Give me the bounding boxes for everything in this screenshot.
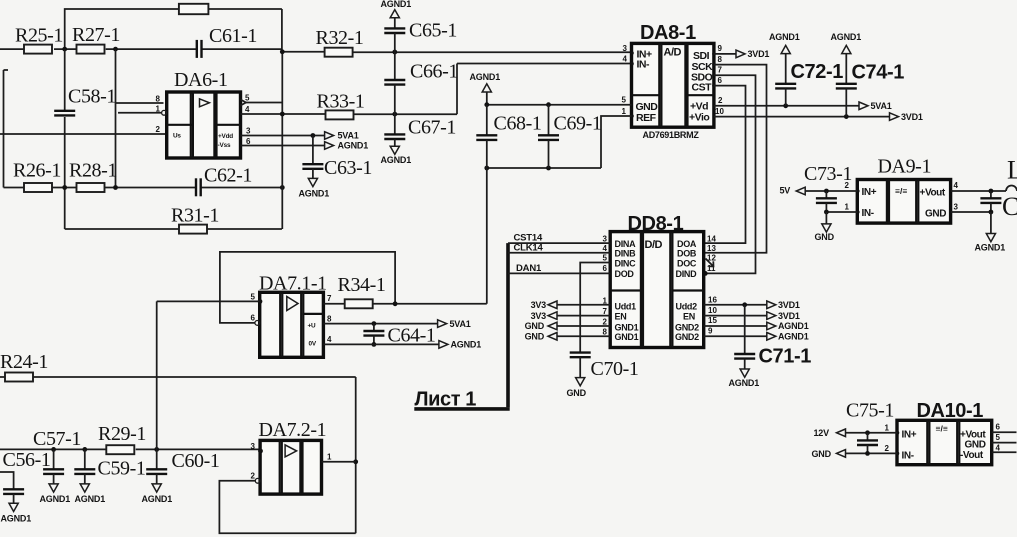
svg-text:6: 6: [996, 423, 1001, 432]
wire +Vout row: [992, 431, 1017, 433]
wire DA6 pin4 to R33: [241, 113, 326, 115]
wire input row R25/R27: [0, 48, 26, 50]
wire EN2 row to 3VD1: [704, 315, 767, 317]
wire DA6 pin6 to AGND1: [241, 145, 325, 147]
svg-text:C61-1: C61-1: [209, 25, 257, 47]
svg-text:0V: 0V: [309, 341, 317, 348]
wire C73 to GND: [825, 212, 827, 224]
svg-text:15: 15: [708, 316, 717, 325]
power AGND1 flag at pin4: [439, 341, 448, 349]
svg-text:DINB: DINB: [615, 249, 637, 259]
svg-text:R24-1: R24-1: [0, 351, 48, 373]
svg-text:AGND1: AGND1: [778, 321, 809, 331]
svg-text:5VA1: 5VA1: [338, 131, 359, 141]
ground AGND1 below C56: [9, 503, 18, 511]
svg-text:R32-1: R32-1: [316, 27, 364, 49]
ground AGND1 below C60: [152, 484, 161, 492]
svg-text:AGND1: AGND1: [470, 72, 501, 82]
svg-text:GND: GND: [925, 209, 946, 220]
wire C66 to C67: [394, 85, 396, 135]
power 5VA1 flag: [325, 132, 334, 140]
svg-text:7: 7: [718, 66, 723, 75]
svg-text:A/D: A/D: [664, 47, 682, 59]
svg-text:Us: Us: [173, 133, 181, 140]
svg-text:GND: GND: [525, 332, 545, 342]
power 3VD1 flag pin10: [767, 312, 776, 320]
svg-text:R25-1: R25-1: [15, 25, 63, 47]
svg-text:EN: EN: [683, 311, 695, 321]
svg-text:GND: GND: [525, 321, 545, 331]
svg-text:C62-1: C62-1: [204, 165, 252, 187]
svg-text:-Vout: -Vout: [960, 450, 984, 461]
ground AGND1 below C57: [49, 484, 58, 492]
svg-text:R29-1: R29-1: [98, 423, 146, 445]
svg-text:C59-1: C59-1: [98, 458, 146, 480]
svg-text:REF: REF: [636, 112, 657, 124]
svg-text:≡/≡: ≡/≡: [936, 424, 948, 434]
wire REF bottom rail: [487, 167, 601, 169]
svg-text:CLK14: CLK14: [514, 242, 544, 253]
svg-text:1: 1: [622, 107, 627, 116]
svg-text:2: 2: [156, 125, 161, 134]
wire pin1 out: [322, 461, 356, 463]
svg-text:3VD1: 3VD1: [748, 49, 770, 59]
wire CST bus: [704, 86, 746, 244]
svg-text:4: 4: [996, 444, 1001, 453]
svg-text:D/D: D/D: [645, 239, 663, 251]
svg-text:+Vdd: +Vdd: [218, 133, 233, 140]
svg-text:AGND1: AGND1: [451, 340, 482, 350]
svg-text:R27-1: R27-1: [72, 24, 120, 46]
svg-text:7: 7: [327, 294, 332, 303]
svg-text:AGND1: AGND1: [142, 494, 173, 504]
wire DA6 pin5 to V2: [246, 102, 282, 104]
svg-text:8: 8: [603, 328, 608, 337]
svg-text:C70-1: C70-1: [591, 358, 639, 380]
node junction R27 out: [113, 47, 118, 52]
svg-text:C75-1: C75-1: [846, 400, 894, 422]
wire pin8 to 5VA1: [323, 323, 437, 325]
svg-text:-Vss: -Vss: [218, 142, 231, 149]
wire pin4 to AGND1: [323, 343, 439, 345]
svg-text:13: 13: [707, 244, 716, 253]
node DIND junction: [703, 271, 708, 276]
power 3VD1 flag at SDI: [736, 50, 745, 58]
svg-text:AGND1: AGND1: [769, 32, 800, 42]
svg-text:1: 1: [885, 424, 890, 433]
svg-text:C73-1: C73-1: [804, 163, 852, 185]
svg-text:1: 1: [327, 453, 332, 462]
wire SCK bus: [704, 65, 767, 253]
svg-text:C64-1: C64-1: [388, 325, 436, 347]
ground AGND1 below C67: [390, 146, 399, 154]
svg-text:C67-1: C67-1: [408, 117, 456, 139]
svg-text:3: 3: [246, 127, 251, 136]
svg-text:4: 4: [603, 244, 608, 253]
wire R32 row to ADC IN+: [282, 51, 324, 53]
svg-text:DOA: DOA: [677, 239, 697, 249]
wire SDO bus: [706, 75, 756, 273]
svg-text:5V: 5V: [780, 186, 791, 196]
power AGND1 flag: [325, 142, 334, 150]
svg-text:2: 2: [718, 96, 723, 105]
power 5VA1 flag at pin8: [438, 320, 447, 328]
svg-text:Лист 1: Лист 1: [415, 389, 477, 411]
wire R34 out to REF: [373, 303, 487, 305]
svg-text:DOB: DOB: [677, 249, 697, 259]
svg-text:14: 14: [707, 234, 716, 243]
svg-text:C68-1: C68-1: [494, 113, 542, 135]
svg-text:C74-1: C74-1: [852, 62, 905, 84]
svg-text:10: 10: [715, 107, 724, 116]
svg-text:16: 16: [708, 296, 717, 305]
wire C67 to ground: [394, 139, 396, 146]
wire DA6 pin3 to 5VA1: [241, 135, 325, 137]
svg-text:3: 3: [623, 44, 628, 53]
svg-text:4: 4: [327, 335, 332, 344]
svg-text:3V3: 3V3: [531, 300, 547, 310]
svg-text:DA9-1: DA9-1: [878, 156, 932, 178]
svg-text:+Vout: +Vout: [920, 188, 946, 199]
wire GND to IN-: [846, 452, 898, 454]
svg-text:2: 2: [885, 444, 890, 453]
wire 5V to IN+: [805, 190, 857, 192]
ground AGND1 below C63: [308, 178, 317, 186]
pin 12 DOC direction mark: [706, 259, 714, 267]
svg-text:GND: GND: [815, 232, 835, 242]
svg-text:GND: GND: [965, 440, 986, 451]
wire pin7 to R34: [323, 303, 344, 305]
wire top feedback: [65, 9, 179, 49]
power 5VA1 flag: [859, 102, 868, 110]
svg-text:DA8-1: DA8-1: [640, 22, 696, 44]
svg-text:C57-1: C57-1: [33, 428, 81, 450]
svg-text:DINA: DINA: [615, 239, 637, 249]
wire GND2 row to AGND1: [704, 325, 767, 327]
wire vertical left V1: [64, 49, 66, 111]
svg-text:DIND: DIND: [676, 269, 698, 279]
svg-text:1: 1: [156, 105, 161, 114]
wire REF drop: [601, 116, 632, 168]
svg-text:CST: CST: [692, 82, 713, 94]
resistor R30: [179, 4, 209, 14]
svg-text:5: 5: [996, 433, 1001, 442]
svg-text:C69-1: C69-1: [554, 113, 602, 135]
svg-text:3V3: 3V3: [531, 311, 547, 321]
wire pin5 riser: [156, 301, 158, 449]
wire REF to R34: [486, 168, 488, 304]
wire R24 row: [0, 376, 5, 378]
svg-text:C71-1: C71-1: [759, 346, 812, 368]
svg-text:R34-1: R34-1: [338, 274, 386, 296]
svg-text:1: 1: [845, 203, 850, 212]
svg-text:3: 3: [603, 234, 608, 243]
svg-text:4: 4: [623, 55, 628, 64]
svg-text:+U: +U: [308, 323, 317, 330]
svg-text:5: 5: [622, 95, 627, 104]
svg-text:5: 5: [251, 293, 256, 302]
svg-text:R33-1: R33-1: [317, 91, 365, 113]
wire GND3 row: [951, 211, 991, 213]
svg-text:9: 9: [718, 44, 723, 53]
svg-text:DAN1: DAN1: [516, 263, 542, 274]
ground AGND1 below C71: [740, 369, 749, 377]
wire IN- riser: [456, 64, 458, 115]
svg-text:AGND1: AGND1: [338, 141, 369, 151]
svg-text:3: 3: [251, 442, 256, 451]
wire +Vd row to 5VA1: [714, 105, 859, 107]
power AGND1 flag pin15: [767, 322, 776, 330]
svg-text:6: 6: [718, 76, 723, 85]
svg-text:R31-1: R31-1: [171, 205, 219, 227]
svg-text:≡/≡: ≡/≡: [895, 186, 907, 196]
wire vertical V2: [281, 52, 283, 229]
ground GND below C70: [576, 378, 585, 386]
svg-text:DOD: DOD: [615, 269, 635, 279]
svg-text:5: 5: [603, 254, 608, 263]
svg-text:AGND1: AGND1: [729, 378, 760, 388]
svg-text:10: 10: [708, 306, 717, 315]
svg-text:DINC: DINC: [615, 258, 637, 268]
svg-text:GND2: GND2: [675, 332, 699, 342]
svg-text:C60-1: C60-1: [172, 450, 220, 472]
svg-text:2: 2: [251, 472, 256, 481]
svg-text:IN-: IN-: [902, 451, 914, 462]
wire DINC stub: [580, 263, 610, 353]
svg-text:3VD1: 3VD1: [778, 311, 800, 321]
wire R27 to DA6 pins: [115, 49, 117, 187]
svg-text:GND: GND: [812, 449, 832, 459]
ground AGND1 below C59: [80, 484, 89, 492]
wire R26/R28 row: [4, 69, 9, 71]
svg-text:GND1: GND1: [615, 322, 639, 332]
svg-text:L: L: [1007, 156, 1017, 185]
svg-text:IN+: IN+: [862, 187, 877, 198]
wire C76 to AGND1: [990, 212, 992, 234]
svg-text:R28-1: R28-1: [69, 160, 117, 182]
wire C65 to C66: [394, 33, 396, 80]
svg-text:GND: GND: [567, 388, 587, 398]
power AGND1 flag pin9: [767, 333, 776, 341]
svg-text:AGND1: AGND1: [40, 494, 71, 504]
wire GND rail to DA8: [487, 104, 632, 106]
wire GND out row: [992, 442, 1017, 444]
svg-text:5: 5: [245, 94, 250, 103]
ground AGND1 below C76: [986, 234, 995, 242]
wire Udd2 row to 3VD1: [704, 304, 767, 306]
svg-text:8: 8: [327, 314, 332, 323]
svg-text:5VA1: 5VA1: [450, 319, 471, 329]
svg-text:C63-1: C63-1: [324, 157, 372, 179]
wire Vout row: [951, 190, 1006, 192]
wire DA6 pin2 row: [0, 133, 167, 135]
wire DA7.2 feedback loop: [219, 481, 355, 533]
wire +Vio row to 3VD1: [714, 116, 890, 118]
wire DA7.1 feedback loop: [220, 252, 395, 323]
svg-text:3VD1: 3VD1: [778, 300, 800, 310]
svg-text:6: 6: [251, 314, 256, 323]
svg-text:IN-: IN-: [637, 59, 651, 71]
wire R31 row: [65, 228, 179, 230]
svg-text:8: 8: [718, 55, 723, 64]
wire pin5 input: [157, 300, 260, 302]
svg-text:12V: 12V: [814, 428, 830, 438]
power 3VD1 flag: [890, 113, 899, 121]
svg-text:C65-1: C65-1: [409, 20, 457, 42]
svg-text:DA7.2-1: DA7.2-1: [259, 419, 327, 441]
svg-text:3VD1: 3VD1: [901, 112, 923, 122]
wire DA7.2 output riser: [355, 377, 357, 533]
svg-text:Udd1: Udd1: [615, 302, 637, 312]
svg-text:AGND1: AGND1: [75, 494, 106, 504]
svg-text:GND2: GND2: [675, 322, 699, 332]
svg-text:GND1: GND1: [615, 332, 639, 342]
svg-text:AGND1: AGND1: [299, 189, 330, 199]
svg-text:Udd2: Udd2: [676, 302, 698, 312]
wire R33 to corner: [354, 113, 458, 115]
svg-text:AGND1: AGND1: [831, 32, 862, 42]
svg-text:AD7691BRMZ: AD7691BRMZ: [643, 130, 700, 140]
ground GND below C73: [822, 224, 831, 232]
svg-text:AGND1: AGND1: [381, 155, 412, 165]
svg-text:6: 6: [603, 264, 608, 273]
svg-text:AGND1: AGND1: [778, 332, 809, 342]
svg-text:AGND1: AGND1: [975, 243, 1006, 253]
svg-text:AGND1: AGND1: [381, 0, 412, 9]
svg-text:R26-1: R26-1: [13, 160, 61, 182]
node junction R28 out: [113, 185, 118, 190]
svg-text:C58-1: C58-1: [68, 86, 116, 108]
svg-text:DA6-1: DA6-1: [174, 69, 228, 91]
svg-text:IN+: IN+: [902, 430, 917, 441]
svg-text:5VA1: 5VA1: [871, 101, 892, 111]
wire SDI to 3VD1: [714, 53, 736, 55]
svg-text:C: C: [1002, 192, 1017, 221]
svg-text:AGND1: AGND1: [1, 514, 32, 524]
svg-text:IN-: IN-: [862, 208, 874, 219]
svg-text:EN: EN: [615, 311, 627, 321]
svg-text:9: 9: [708, 327, 713, 336]
svg-text:4: 4: [954, 181, 959, 190]
svg-text:3: 3: [954, 203, 959, 212]
svg-text:+Vio: +Vio: [689, 112, 709, 124]
wire -Vout row: [992, 451, 1017, 453]
wire GND2b row to AGND1: [704, 335, 767, 337]
wire 12V to IN+: [846, 432, 898, 434]
wire main input row: [0, 448, 106, 450]
svg-text:8: 8: [156, 95, 161, 104]
off-page bus Лист 1: [506, 243, 510, 407]
svg-text:C56-1: C56-1: [3, 449, 51, 471]
node junction R25/R27: [62, 47, 67, 52]
svg-text:DOC: DOC: [677, 258, 697, 268]
svg-text:C72-1: C72-1: [791, 61, 844, 83]
svg-text:C66-1: C66-1: [410, 61, 458, 83]
svg-text:4: 4: [245, 105, 250, 114]
power 3VD1 flag pin16: [767, 301, 776, 309]
wire IN- row: [826, 211, 857, 213]
